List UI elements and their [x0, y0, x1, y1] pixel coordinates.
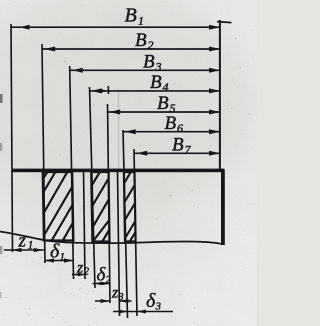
label z3	[111, 285, 124, 304]
svg-text:7: 7	[185, 143, 192, 157]
dimension delta2	[93, 282, 111, 286]
hatched bar 3 (layer delta3)	[124, 172, 136, 242]
intermediate surface line between bar1 and bar2	[84, 171, 86, 279]
thick right edge of the part	[221, 170, 225, 245]
svg-text:z: z	[76, 260, 84, 277]
svg-text:B: B	[165, 113, 177, 134]
dimension z3 (arrows outside)	[95, 299, 132, 303]
intermediate surface line between bar2 and bar3	[118, 171, 120, 316]
svg-text:3: 3	[155, 301, 162, 313]
extension line of B5 / right edge of bar 2	[108, 104, 111, 303]
svg-text:2: 2	[148, 38, 154, 52]
svg-text:1: 1	[60, 251, 66, 263]
hatched bar 1 (layer delta1)	[43, 172, 74, 241]
svg-text:B: B	[125, 5, 137, 27]
svg-text:δ: δ	[146, 290, 156, 312]
label z1	[18, 231, 34, 252]
label B6	[165, 113, 184, 135]
dimension delta1	[45, 258, 74, 262]
dimension line B2	[42, 47, 220, 52]
scan noise marks on left edge	[0, 94, 3, 298]
label B3	[143, 52, 162, 74]
dimension delta3 (arrows outside)	[113, 310, 173, 314]
svg-text:B: B	[135, 30, 147, 51]
extension line of B1 (left)	[11, 24, 13, 252]
label delta1	[50, 241, 65, 264]
dimension line B6	[123, 129, 220, 134]
svg-text:B: B	[157, 93, 169, 114]
svg-text:B: B	[172, 135, 184, 156]
svg-text:1: 1	[28, 238, 34, 252]
svg-text:3: 3	[118, 292, 124, 303]
svg-text:δ: δ	[50, 241, 60, 263]
svg-text:4: 4	[163, 80, 169, 94]
svg-text:2: 2	[106, 275, 111, 286]
extension line of B3 / right edge of bar 1	[70, 66, 74, 279]
paper speckle noise	[5, 29, 253, 325]
dimension z2	[72, 273, 86, 276]
tick at top of right extension line	[217, 22, 232, 23]
dimension line B7	[134, 151, 220, 156]
label z2	[76, 260, 89, 278]
label delta2	[97, 265, 111, 287]
label delta3	[146, 290, 162, 313]
svg-text:z: z	[18, 231, 27, 252]
dimension line B5	[108, 110, 221, 115]
dimension line B4	[90, 88, 221, 93]
right extension line (common)	[219, 20, 221, 170]
label B7	[172, 135, 192, 157]
svg-text:B: B	[143, 52, 155, 73]
svg-text:B: B	[150, 72, 162, 93]
dimension line B1	[11, 25, 220, 30]
label B5	[157, 93, 176, 115]
label B4	[150, 72, 169, 94]
svg-text:2: 2	[84, 267, 89, 278]
label B1	[125, 5, 145, 28]
label B2	[135, 30, 154, 52]
dimension z1	[4, 248, 44, 252]
dimension line B3	[70, 68, 220, 73]
hatched bar 2 (layer delta2)	[91, 172, 109, 242]
faint ghost trace above thick line	[117, 88, 119, 170]
svg-text:1: 1	[138, 14, 144, 28]
thick top surface line of the part	[13, 169, 225, 173]
extension line of B7 / right edge of bar 3	[134, 149, 137, 316]
stub of bar2 right edge crossing B4 line	[107, 86, 109, 94]
extension line of B4 / left edge of bar 2	[90, 87, 96, 288]
wavy break line across the part	[0, 232, 222, 245]
extension line of B6 / left edge of bar 3	[123, 130, 128, 318]
svg-text:6: 6	[177, 121, 183, 135]
extension line of B2 / left edge of bar 1	[42, 44, 45, 263]
